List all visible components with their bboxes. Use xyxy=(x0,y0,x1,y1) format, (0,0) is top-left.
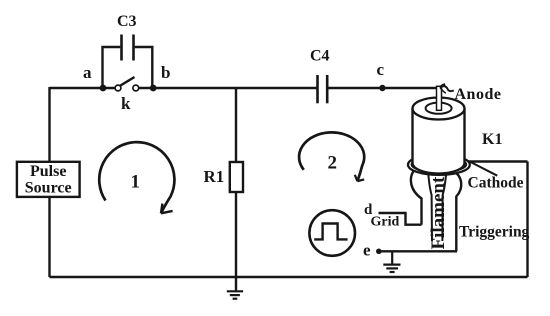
svg-text:e: e xyxy=(363,241,371,260)
svg-text:Cathode: Cathode xyxy=(468,174,524,191)
svg-text:Triggering: Triggering xyxy=(459,224,530,241)
svg-text:b: b xyxy=(161,63,170,82)
wire switch to C4 left plate xyxy=(139,87,317,89)
svg-text:k: k xyxy=(121,94,131,113)
filament return wire to node e xyxy=(379,250,457,252)
capacitor C4 right plate xyxy=(326,75,329,103)
svg-text:Pulse: Pulse xyxy=(30,163,66,180)
wire R1 branch lower + ground stub xyxy=(235,192,237,292)
svg-text:C3: C3 xyxy=(117,13,137,30)
capacitor C3 left plate xyxy=(120,35,123,61)
tube K1 cylinder body xyxy=(413,109,465,174)
capacitor C3 right plate xyxy=(132,35,135,61)
pulse waveform symbol circle xyxy=(309,210,355,256)
svg-text:Grid: Grid xyxy=(371,215,400,230)
tube K1 cylinder right side xyxy=(463,109,465,164)
switch k contact left xyxy=(115,85,121,91)
svg-text:R1: R1 xyxy=(204,167,225,186)
svg-text:C4: C4 xyxy=(310,48,330,65)
switch k blade xyxy=(120,77,134,86)
anode stem xyxy=(437,86,442,110)
wire C4 right plate to anode stem xyxy=(328,87,437,89)
svg-text:c: c xyxy=(377,60,385,79)
cathode leader line xyxy=(471,162,498,176)
anode leader arrowhead upper barb xyxy=(440,84,445,87)
wire top left horizontal (corner to switch) xyxy=(50,87,116,89)
triggering box top edge xyxy=(466,160,528,162)
svg-text:a: a xyxy=(83,63,92,82)
loop arrow 1 xyxy=(99,142,174,213)
tube K1 top inner ellipse xyxy=(426,103,452,114)
anode leader arrowhead lower barb xyxy=(440,88,446,94)
node a xyxy=(100,85,107,92)
pulse source box xyxy=(17,162,80,197)
pulse waveform trace xyxy=(314,224,347,240)
wire left vertical upper (corner to Pulse Source) xyxy=(48,87,50,162)
capacitor C4 left plate xyxy=(316,75,319,103)
tube K1 cylinder bottom arc xyxy=(413,163,465,174)
tube K1 bell left outer xyxy=(411,171,422,225)
grid lead wire xyxy=(379,213,422,225)
svg-text:Source: Source xyxy=(25,180,72,197)
svg-text:1: 1 xyxy=(131,171,141,192)
svg-text:K1: K1 xyxy=(482,131,502,148)
tube K1 cathode flange inner ellipse xyxy=(412,157,467,172)
node b xyxy=(150,85,157,92)
capacitor C3 right riser xyxy=(135,47,153,88)
tube K1 top ellipse xyxy=(413,98,465,120)
node c xyxy=(379,85,385,91)
tube K1 cylinder left side xyxy=(411,109,413,164)
node e xyxy=(376,249,382,255)
svg-text:Filament: Filament xyxy=(428,176,449,249)
ground under R1 xyxy=(227,291,243,298)
svg-text:2: 2 xyxy=(328,153,338,174)
capacitor C3 left riser xyxy=(103,47,121,88)
ground at e xyxy=(383,251,400,272)
resistor R1 body xyxy=(230,162,243,192)
wire R1 branch upper xyxy=(235,88,237,162)
tube K1 cathode flange outer ellipse xyxy=(408,155,470,175)
tube K1 funnel right line xyxy=(442,169,446,241)
wire left vertical lower (Pulse Source to bottom) xyxy=(48,197,50,277)
tube K1 bell right outer xyxy=(454,171,462,251)
switch k contact right xyxy=(133,85,139,91)
loop arrow 2 xyxy=(299,132,364,181)
wire bottom horizontal xyxy=(50,276,528,278)
svg-text:Anode: Anode xyxy=(455,86,502,103)
anode leader squiggle xyxy=(440,86,454,91)
triggering box right edge xyxy=(526,162,528,278)
tube K1 funnel left line xyxy=(428,169,432,241)
